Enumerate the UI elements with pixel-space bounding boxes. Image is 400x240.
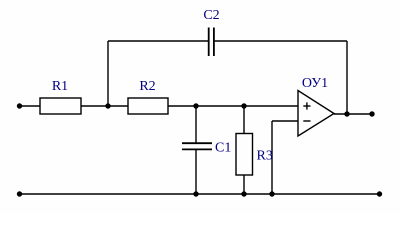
svg-text:C1: C1 — [215, 141, 231, 156]
svg-text:R3: R3 — [257, 149, 273, 164]
svg-text:R2: R2 — [139, 79, 155, 94]
svg-text:C2: C2 — [203, 8, 219, 23]
svg-text:ОУ1: ОУ1 — [302, 76, 328, 91]
svg-text:R1: R1 — [52, 79, 68, 94]
